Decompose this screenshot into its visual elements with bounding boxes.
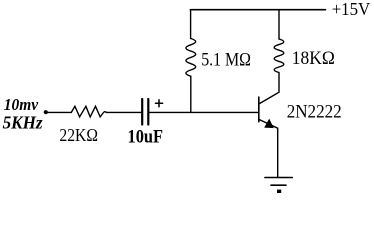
svg-text:+15V: +15V bbox=[332, 0, 371, 19]
svg-text:10mv: 10mv bbox=[4, 95, 39, 114]
svg-text:5KHz: 5KHz bbox=[3, 113, 43, 133]
wire input to R2 bbox=[48, 111, 72, 113]
svg-text:10uF: 10uF bbox=[128, 127, 164, 148]
wire C1 to base bbox=[149, 111, 258, 113]
node input dot bbox=[44, 110, 48, 114]
ground bar 2 bbox=[271, 184, 286, 186]
svg-text:22KΩ: 22KΩ bbox=[59, 125, 98, 145]
transistor Q1 emitter lead bbox=[259, 119, 278, 177]
wire 5.1M bottom lead bbox=[190, 76, 192, 112]
svg-text:18KΩ: 18KΩ bbox=[292, 48, 335, 69]
svg-text:2N2222: 2N2222 bbox=[287, 101, 342, 122]
capacitor C1 plus sign bbox=[156, 100, 163, 107]
resistor R1 5.1M body bbox=[186, 39, 196, 77]
capacitor C1 left plate bbox=[141, 99, 143, 125]
transistor Q1 base bar bbox=[258, 97, 260, 122]
ground bar 3 bbox=[277, 190, 281, 193]
wire top rail bbox=[190, 9, 325, 11]
resistor R2 22K body bbox=[71, 106, 106, 117]
svg-text:5.1 MΩ: 5.1 MΩ bbox=[201, 50, 251, 71]
ground bar 1 bbox=[265, 177, 292, 179]
transistor Q1 emitter arrow bbox=[264, 119, 274, 129]
wire R2 to C1 bbox=[106, 111, 141, 113]
wire 18K top lead bbox=[278, 10, 280, 39]
capacitor C1 right plate bbox=[147, 99, 149, 125]
wire 18K bottom lead / collector bbox=[259, 73, 279, 104]
wire 5.1M top lead bbox=[190, 10, 192, 39]
resistor R3 18K body bbox=[274, 39, 284, 73]
